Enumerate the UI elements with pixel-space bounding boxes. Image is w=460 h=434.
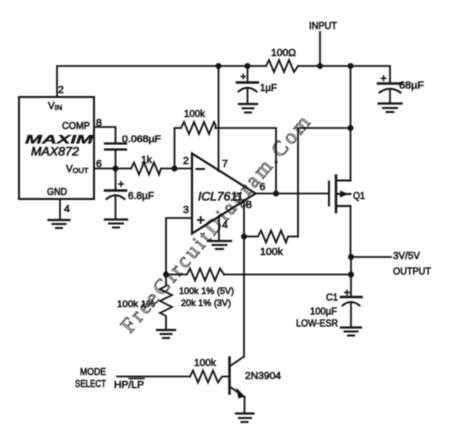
svg-text:COMP: COMP [62, 121, 90, 132]
svg-text:2: 2 [58, 84, 64, 96]
opamp plus [197, 216, 205, 224]
wire top rail left [57, 66, 266, 97]
svg-text:OUTPUT: OUTPUT [393, 266, 432, 278]
svg-text:8: 8 [246, 199, 252, 211]
svg-text:MAX872: MAX872 [31, 147, 80, 159]
wire output tap [351, 256, 391, 258]
wire pin3 [166, 218, 192, 275]
wire divider to output [224, 274, 351, 276]
wire pin7 drop [218, 66, 220, 171]
svg-text:ICL7611: ICL7611 [198, 190, 243, 204]
node pin7 rail [216, 63, 222, 69]
svg-text:68µF: 68µF [399, 80, 424, 92]
capacitor 6.8uF [105, 169, 154, 219]
ground 6.8uF [105, 220, 127, 228]
node pin8 feed [348, 125, 354, 131]
svg-text:GND: GND [47, 187, 67, 198]
node output [273, 191, 279, 197]
node feedback tap [348, 272, 354, 278]
resistor 100k 1% 5V [166, 269, 234, 310]
svg-text:HP/LP: HP/LP [114, 380, 144, 391]
svg-text:C1: C1 [326, 293, 338, 304]
wire input drop [319, 32, 321, 66]
ground opamp [208, 241, 231, 249]
node divider [163, 272, 169, 278]
svg-text:VIN: VIN [48, 101, 62, 112]
op-amp U1 triangle [192, 154, 256, 234]
svg-text:LOW-ESR: LOW-ESR [296, 318, 338, 330]
ground 1uF [239, 104, 257, 113]
wire pin4 [218, 216, 220, 241]
svg-text:6.8µF: 6.8µF [128, 190, 154, 202]
svg-text:100k 1%: 100k 1% [117, 299, 156, 310]
svg-text:100k 1% (5V): 100k 1% (5V) [179, 286, 234, 297]
wire comp pin [94, 127, 116, 143]
capacitor 1uF [237, 66, 277, 103]
svg-text:2N3904: 2N3904 [245, 370, 281, 382]
svg-text:MAXIM: MAXIM [25, 133, 95, 147]
svg-text:7: 7 [222, 158, 228, 170]
transistor Q1 mosfet [329, 176, 351, 213]
svg-text:VOUT: VOUT [66, 164, 89, 175]
wire top rail right [298, 66, 390, 84]
svg-text:1µF: 1µF [260, 82, 277, 94]
node output tap [348, 254, 354, 260]
wire feedback up [175, 128, 182, 169]
svg-text:SELECT: SELECT [75, 379, 106, 390]
wire output [256, 193, 328, 195]
capacitor C1 [296, 290, 362, 330]
wire collector up [243, 237, 245, 357]
svg-text:3V/5V: 3V/5V [393, 250, 420, 262]
MODE SELECT labels [75, 367, 144, 391]
svg-text:1k: 1k [141, 154, 153, 166]
wire drain lower [350, 128, 352, 181]
svg-text:3: 3 [183, 204, 189, 216]
IC MAX872 box [19, 97, 94, 199]
resistor 100k 1% lower [117, 275, 172, 330]
node 1uF rail [245, 63, 251, 69]
wire pin2 stub [175, 168, 193, 170]
svg-text:100k: 100k [194, 357, 217, 369]
node input [317, 63, 323, 69]
wire pin8 drop [243, 200, 245, 237]
node inverting input [172, 166, 178, 172]
ground MAX872 [49, 220, 70, 228]
resistor 100k mode [190, 357, 230, 383]
svg-text:100k: 100k [260, 246, 284, 258]
capacitor 68uF [378, 75, 424, 102]
wire pin8 to rail [298, 128, 351, 237]
svg-text:4: 4 [222, 219, 228, 231]
svg-text:6: 6 [260, 181, 266, 193]
wire pin4 [59, 199, 61, 219]
ground C1 [341, 328, 361, 336]
ground divider [157, 330, 175, 338]
svg-text:4: 4 [64, 203, 70, 215]
opamp minus [197, 168, 205, 170]
node vout [113, 166, 119, 172]
node Q1 drain rail [348, 63, 354, 69]
wire feedback right [216, 128, 277, 194]
svg-text:20k 1% (3V): 20k 1% (3V) [181, 298, 231, 309]
wire vout [94, 168, 131, 170]
svg-text:0.068µF: 0.068µF [122, 134, 161, 145]
svg-text:Q1: Q1 [353, 191, 365, 202]
transistor Q2 2N3904 [230, 357, 246, 399]
svg-text:100k: 100k [184, 108, 206, 120]
resistor 1k [131, 154, 175, 175]
wire Q1 source down [350, 206, 352, 257]
svg-text:100µF: 100µF [310, 306, 337, 318]
wire right rail [350, 257, 352, 297]
resistor 100k feedback [181, 108, 216, 134]
svg-text:INPUT: INPUT [309, 20, 338, 32]
resistor 100k pin8 [244, 231, 298, 259]
capacitor 0.068uF [105, 134, 161, 169]
resistor 100ohm [266, 60, 298, 72]
svg-text:2: 2 [183, 155, 189, 167]
svg-text:MODE: MODE [80, 367, 106, 378]
ground 2N3904 [236, 414, 254, 423]
svg-text:100Ω: 100Ω [271, 47, 296, 59]
node pin8 [241, 234, 247, 240]
wire emitter down [244, 397, 246, 413]
wire Q1 drain drop [350, 66, 352, 128]
ground 68uF [379, 104, 402, 113]
wire mode select [117, 376, 190, 378]
